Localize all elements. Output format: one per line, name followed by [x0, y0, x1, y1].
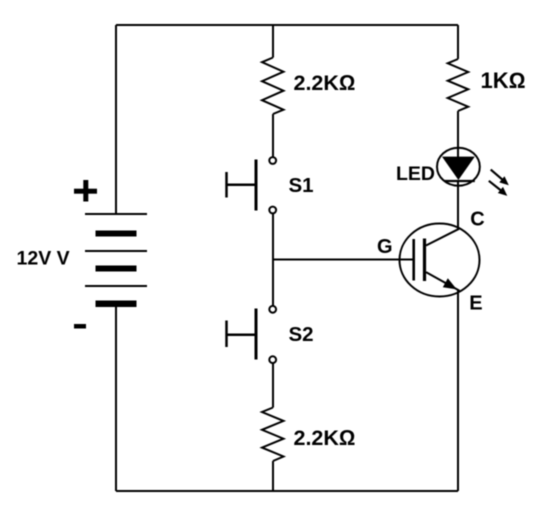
wire gate horizontal: [273, 259, 413, 261]
resistor R2 2.2K zigzag: [262, 408, 284, 462]
battery minus sign: [74, 324, 86, 329]
wire left column top: [115, 25, 117, 214]
svg-text:S2: S2: [289, 323, 314, 346]
wire S2 to R2: [272, 363, 274, 408]
svg-text:E: E: [469, 293, 482, 315]
svg-text:2.2KΩ: 2.2KΩ: [294, 426, 356, 450]
wire left column bottom: [115, 305, 117, 491]
switch S1: [227, 157, 277, 213]
battery V1 12V: [85, 214, 147, 307]
LED D1: [437, 148, 480, 186]
svg-text:2.2KΩ: 2.2KΩ: [294, 71, 356, 95]
wire top rail: [116, 24, 458, 26]
resistor R3 1K zigzag: [448, 59, 469, 111]
svg-text:12V V: 12V V: [17, 247, 70, 269]
svg-text:1KΩ: 1KΩ: [481, 68, 526, 93]
wire LED to transistor collector: [457, 181, 459, 229]
switch S2: [227, 306, 277, 363]
LED light emission arrows: [489, 170, 509, 196]
wire right column to R3: [457, 25, 459, 59]
svg-text:G: G: [377, 236, 393, 258]
battery plus sign: [74, 180, 97, 202]
wire emitter down: [457, 291, 459, 492]
wire bottom rail: [116, 490, 458, 492]
wire R2 to bottom rail: [272, 461, 274, 491]
wire mid column to R1: [272, 25, 274, 58]
wire S1 to S2 with gate tap: [272, 213, 274, 306]
svg-text:S1: S1: [289, 174, 314, 197]
wire R1 to S1: [272, 114, 274, 157]
wire R3 to LED: [457, 111, 459, 157]
svg-text:LED: LED: [396, 163, 435, 185]
transistor Q1 IGBT: [400, 224, 480, 297]
svg-text:C: C: [470, 208, 484, 230]
resistor R1 2.2K zigzag: [262, 58, 284, 115]
